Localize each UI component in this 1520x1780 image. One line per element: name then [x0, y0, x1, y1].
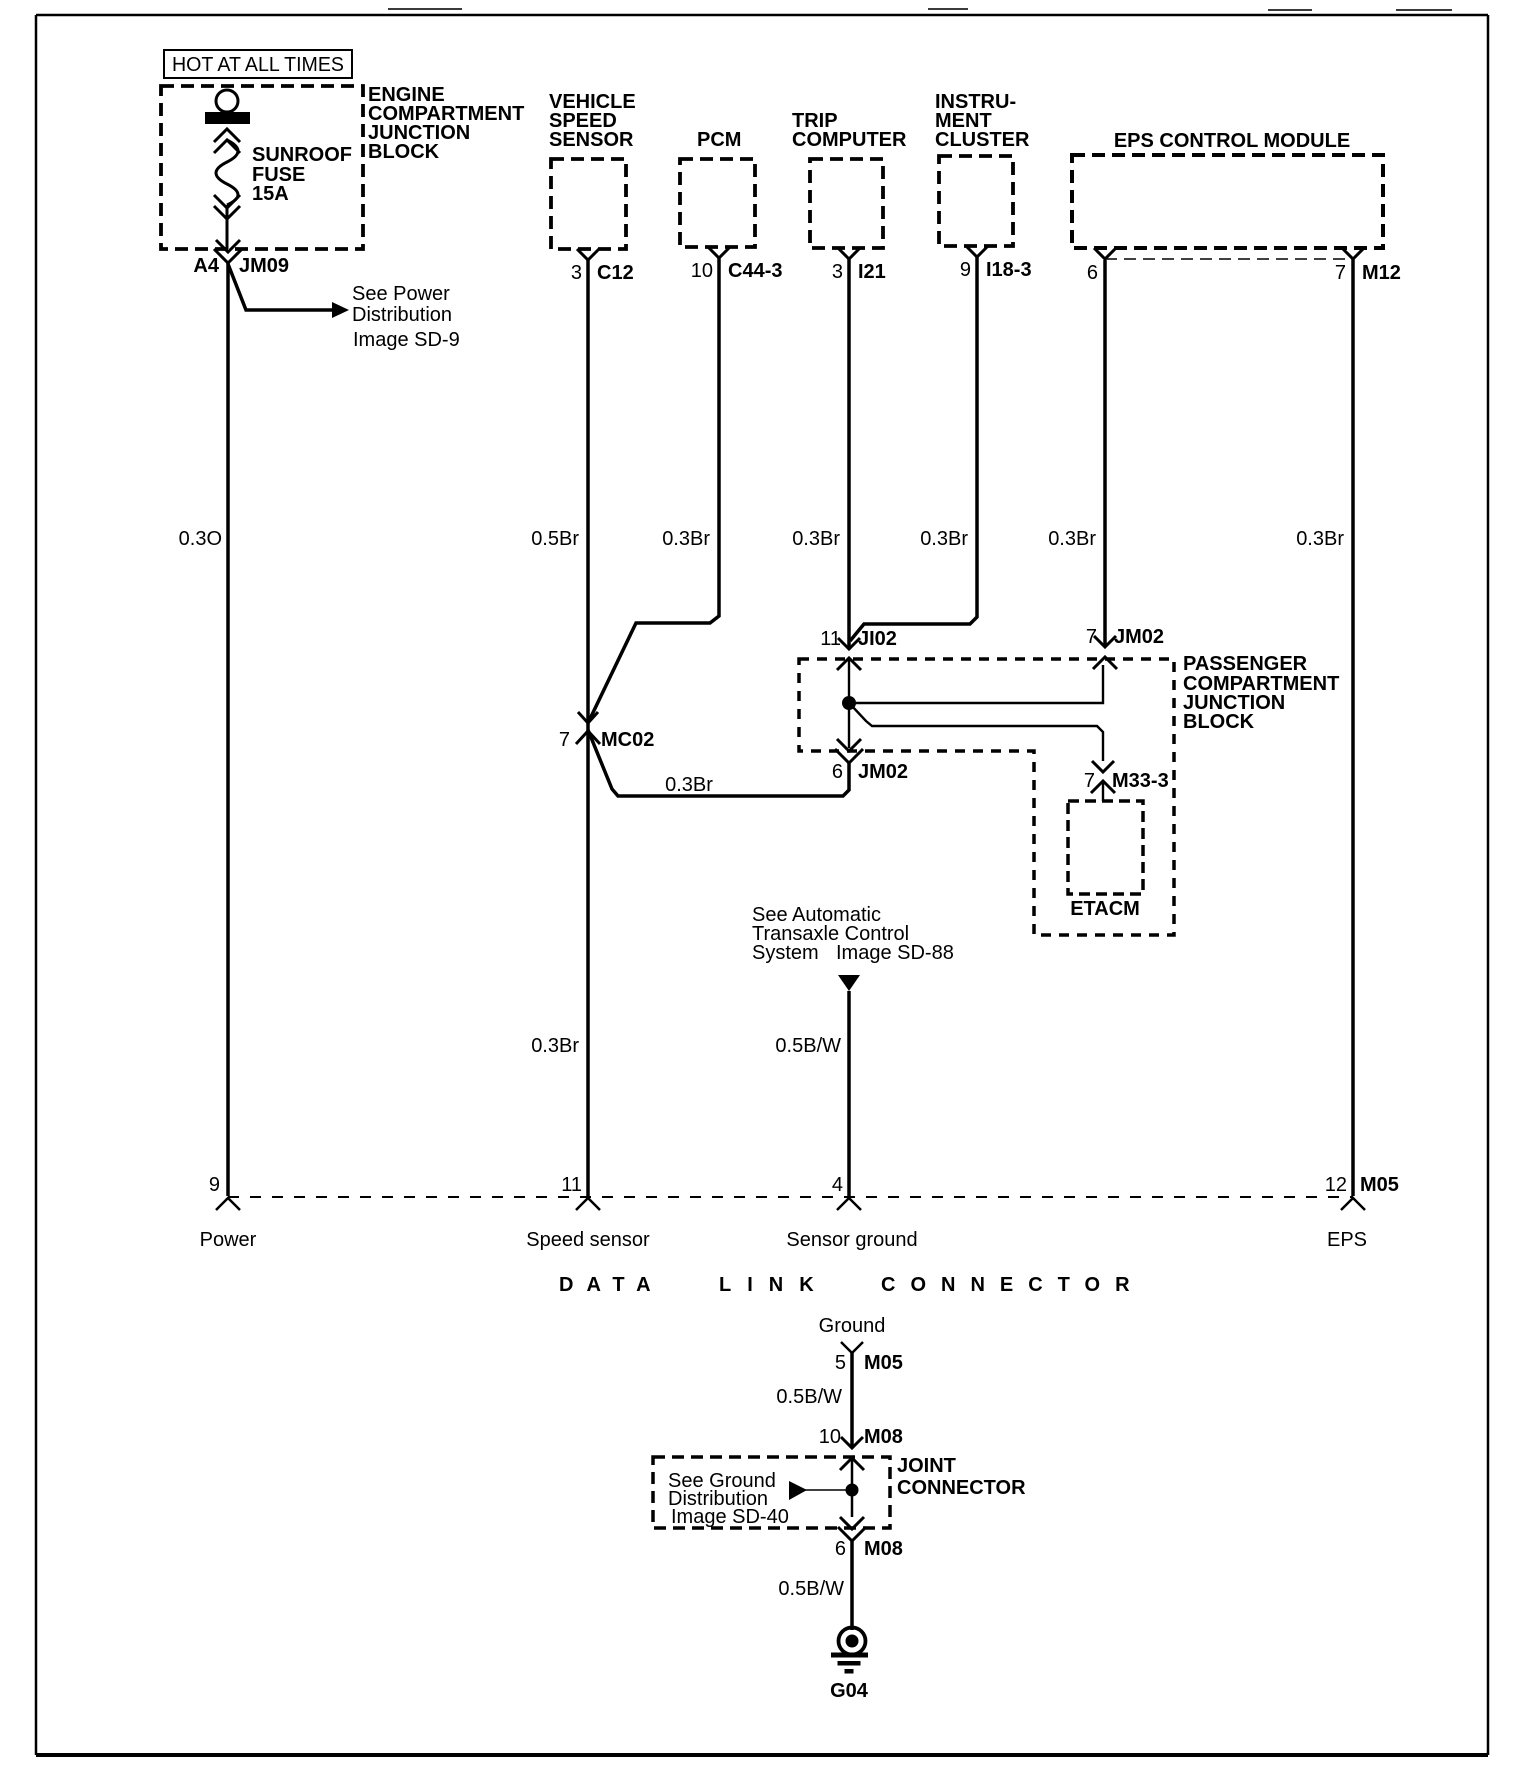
connector M12 pin 7	[1335, 248, 1401, 284]
svg-text:Speed sensor: Speed sensor	[526, 1229, 650, 1251]
svg-text:M08: M08	[864, 1538, 903, 1560]
svg-text:Image SD-40: Image SD-40	[671, 1506, 789, 1528]
connector JM09 pin A4	[193, 240, 289, 277]
label: TRIP COMPUTER	[792, 110, 907, 151]
dashed link between pins 6 and 7	[1105, 258, 1353, 260]
label: DATA LINK CONNECTOR	[559, 1274, 1145, 1296]
svg-text:11: 11	[561, 1174, 582, 1196]
svg-text:JOINT: JOINT	[897, 1455, 956, 1477]
svg-text:CONNECTOR: CONNECTOR	[897, 1477, 1026, 1499]
svg-text:7: 7	[1084, 770, 1095, 792]
fuse value label	[252, 144, 352, 205]
wire M33-3 to ETACM	[1102, 781, 1104, 801]
svg-text:Ground: Ground	[819, 1315, 886, 1337]
svg-text:Sensor ground: Sensor ground	[786, 1229, 917, 1251]
svg-text:HOT AT ALL TIMES: HOT AT ALL TIMES	[172, 54, 344, 76]
PCM box	[680, 159, 755, 247]
connector EPS pin 6	[1087, 248, 1116, 284]
svg-text:JM02: JM02	[858, 761, 908, 783]
svg-text:DATA: DATA	[559, 1274, 664, 1296]
wire PCM 0.3Br	[588, 258, 719, 723]
connector C12 pin 3	[571, 249, 634, 284]
wire sensor ground 0.5B/W	[847, 991, 851, 1196]
ground G04 symbol	[831, 1628, 868, 1674]
svg-text:0.3O: 0.3O	[179, 528, 222, 550]
svg-text:JI02: JI02	[858, 628, 897, 650]
svg-text:System: System	[752, 942, 819, 964]
svg-text:CLUSTER: CLUSTER	[935, 129, 1030, 151]
HOT AT ALL TIMES label box	[164, 50, 352, 78]
svg-text:ETACM: ETACM	[1070, 898, 1140, 920]
note: See Power Distribution Image SD-9	[352, 283, 460, 351]
svg-text:0.3Br: 0.3Br	[920, 528, 968, 550]
svg-text:6: 6	[832, 761, 843, 783]
label JOINT CONNECTOR	[897, 1455, 1026, 1499]
svg-text:PASSENGER: PASSENGER	[1183, 653, 1308, 675]
connector I21 pin 3	[832, 248, 886, 283]
wire instrument cluster 0.3Br	[850, 257, 977, 641]
ground distribution arrow	[789, 1481, 846, 1500]
svg-text:11: 11	[820, 628, 841, 650]
wire speed sensor 0.5Br	[586, 260, 590, 1196]
svg-text:M33-3: M33-3	[1112, 770, 1169, 792]
label: ENGINE COMPARTMENT JUNCTION BLOCK	[368, 84, 524, 163]
wire to M08 pin 6	[851, 1490, 854, 1517]
arrow to power distribution	[228, 264, 349, 318]
arrow from transaxle control system	[838, 975, 860, 991]
svg-text:Distribution: Distribution	[352, 304, 452, 326]
wire ground 0.5B/W lower	[850, 1541, 854, 1630]
svg-text:12: 12	[1325, 1174, 1347, 1196]
trip computer box	[810, 159, 883, 248]
label: VEHICLE SPEED SENSOR	[549, 91, 636, 151]
connector M05 pin 5	[835, 1342, 903, 1374]
svg-text:7: 7	[559, 729, 570, 751]
vehicle speed sensor box	[551, 159, 626, 249]
svg-text:3: 3	[832, 261, 843, 283]
svg-text:M05: M05	[1360, 1174, 1399, 1196]
svg-text:7: 7	[1086, 626, 1097, 648]
svg-text:15A: 15A	[252, 183, 289, 205]
svg-text:0.5B/W: 0.5B/W	[775, 1035, 841, 1057]
svg-text:6: 6	[1087, 262, 1098, 284]
wire ground 0.5B/W upper	[850, 1353, 854, 1447]
DLC pin 9 connector	[200, 1174, 257, 1251]
svg-text:BLOCK: BLOCK	[1183, 711, 1255, 733]
data link connector dashed line	[228, 1196, 1353, 1198]
fuse SUNROOF FUSE 15A	[205, 90, 250, 249]
svg-text:COMPUTER: COMPUTER	[792, 129, 907, 151]
svg-text:0.5Br: 0.5Br	[531, 528, 579, 550]
svg-text:C12: C12	[597, 262, 634, 284]
connector M33-3 pin 7	[1084, 761, 1169, 793]
svg-text:10: 10	[819, 1426, 841, 1448]
connector JM02 pin 7	[1086, 626, 1164, 669]
connector C44-3 pin 10	[691, 247, 783, 282]
svg-text:10: 10	[691, 260, 713, 282]
svg-text:I21: I21	[858, 261, 886, 283]
connector M08 pin 10	[819, 1426, 903, 1470]
svg-text:BLOCK: BLOCK	[368, 141, 440, 163]
engine compartment junction block (dashed box)	[161, 86, 363, 249]
instrument cluster box	[939, 156, 1013, 246]
ETACM box	[1068, 801, 1143, 894]
svg-text:5: 5	[835, 1352, 846, 1374]
svg-text:0.3Br: 0.3Br	[792, 528, 840, 550]
svg-text:Image SD-88: Image SD-88	[836, 942, 954, 964]
wire M08 pin10 into joint connector	[851, 1458, 854, 1484]
wire power 0.3O	[226, 263, 230, 1196]
node dot joint connector	[846, 1484, 859, 1497]
svg-text:6: 6	[835, 1538, 846, 1560]
svg-text:0.5B/W: 0.5B/W	[778, 1578, 844, 1600]
svg-text:M12: M12	[1362, 262, 1401, 284]
svg-text:3: 3	[571, 262, 582, 284]
connector I18-3 pin 9	[960, 246, 1032, 281]
svg-text:0.3Br: 0.3Br	[665, 774, 713, 796]
wire node to JM02 pin 6	[848, 705, 850, 748]
svg-text:JM09: JM09	[239, 255, 289, 277]
svg-text:0.3Br: 0.3Br	[1048, 528, 1096, 550]
EPS control module box	[1072, 155, 1383, 248]
node junction dot	[842, 696, 856, 710]
passenger compartment junction block (dashed outline)	[799, 659, 1174, 935]
svg-text:M05: M05	[864, 1352, 903, 1374]
svg-text:9: 9	[960, 259, 971, 281]
svg-text:EPS: EPS	[1327, 1229, 1367, 1251]
svg-text:G04: G04	[830, 1680, 869, 1702]
wire EPS M12 0.3Br	[1351, 259, 1355, 1196]
DLC pin 4 connector	[786, 1174, 917, 1251]
svg-text:Power: Power	[200, 1229, 257, 1251]
wire 0.3Br from MC02 to JM02 pin6	[588, 730, 849, 796]
svg-text:See Power: See Power	[352, 283, 450, 305]
DLC pin 12 connector M05	[1325, 1174, 1399, 1251]
svg-text:SENSOR: SENSOR	[549, 129, 634, 151]
note: See Automatic Transaxle Control System Image SD-88	[752, 904, 954, 964]
svg-text:0.3Br: 0.3Br	[1296, 528, 1344, 550]
svg-text:PCM: PCM	[697, 129, 741, 151]
label: PASSENGER COMPARTMENT JUNCTION BLOCK	[1183, 653, 1339, 733]
connector JI02 pin 11	[820, 628, 897, 670]
svg-text:4: 4	[832, 1174, 843, 1196]
svg-text:0.3Br: 0.3Br	[662, 528, 710, 550]
svg-text:MC02: MC02	[601, 729, 654, 751]
note: See Ground Distribution Image SD-40	[668, 1470, 789, 1528]
svg-text:CONNECTOR: CONNECTOR	[881, 1274, 1145, 1296]
connector MC02 pin 7	[559, 712, 654, 751]
svg-text:SUNROOF: SUNROOF	[252, 144, 352, 166]
label: INSTRUMENT CLUSTER	[935, 91, 1030, 151]
DLC pin 11 connector	[526, 1174, 650, 1251]
svg-text:9: 9	[209, 1174, 220, 1196]
svg-text:JM02: JM02	[1114, 626, 1164, 648]
svg-text:Image SD-9: Image SD-9	[353, 329, 460, 351]
svg-text:C44-3: C44-3	[728, 260, 782, 282]
svg-text:0.5B/W: 0.5B/W	[776, 1386, 842, 1408]
joint connector box	[653, 1457, 890, 1528]
svg-text:EPS CONTROL MODULE: EPS CONTROL MODULE	[1114, 130, 1350, 152]
svg-text:I18-3: I18-3	[986, 259, 1032, 281]
wire node to M33-3	[851, 705, 1103, 761]
svg-text:0.3Br: 0.3Br	[531, 1035, 579, 1057]
svg-text:7: 7	[1335, 262, 1346, 284]
wire EPS pin6	[1103, 260, 1107, 647]
svg-text:LINK: LINK	[719, 1274, 830, 1296]
svg-text:A4: A4	[193, 255, 219, 277]
wire JI02 to junction node	[848, 658, 850, 697]
connector JM02 pin 6	[832, 739, 908, 783]
svg-text:M08: M08	[864, 1426, 903, 1448]
wire node to JM02 pin7	[849, 665, 1103, 703]
wire trip computer 0.3Br	[847, 259, 851, 649]
connector M08 pin 6	[835, 1517, 903, 1560]
